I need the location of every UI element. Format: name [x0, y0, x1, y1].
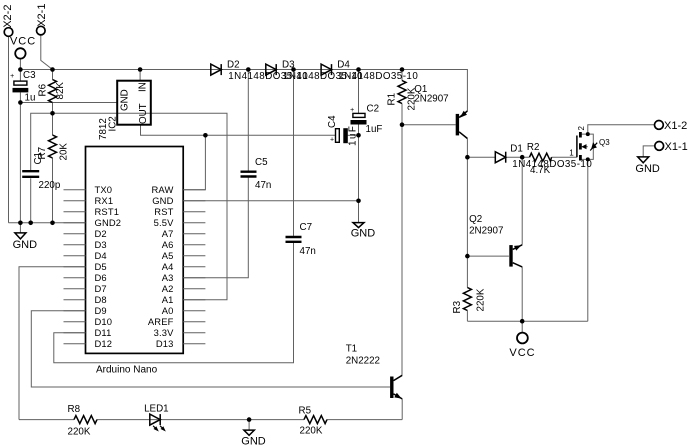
svg-text:AREF: AREF — [148, 316, 174, 327]
wire D1 cathode to R2 — [506, 156, 529, 158]
svg-text:A7: A7 — [162, 228, 174, 239]
capacitor C4 plates — [336, 128, 348, 143]
connector X2-2 — [4, 28, 13, 37]
svg-text:2N2222: 2N2222 — [346, 356, 380, 367]
connector X2-1 — [37, 26, 46, 35]
svg-text:4.7K: 4.7K — [530, 165, 551, 176]
svg-text:C5: C5 — [255, 157, 268, 168]
svg-text:GND: GND — [241, 435, 265, 446]
svg-text:GND: GND — [152, 195, 173, 206]
wire C7 top from bus — [293, 70, 295, 236]
svg-text:220K: 220K — [475, 288, 486, 311]
connector X1-1 — [655, 142, 664, 151]
ground symbol right — [638, 157, 649, 163]
svg-text:C2: C2 — [367, 103, 380, 114]
svg-text:220p: 220p — [39, 180, 61, 191]
diode D1 — [495, 152, 505, 163]
wire X1-1 to GND — [643, 146, 655, 157]
wire divider tap to A1 pin — [31, 113, 227, 299]
wire GND symbol stub left — [19, 223, 21, 233]
wire Q1 collector to D1 node — [466, 139, 468, 158]
diode D2 — [211, 64, 221, 75]
resistor R3 — [463, 288, 471, 311]
transistor Q1 2N2907 — [456, 111, 468, 139]
svg-text:R5: R5 — [299, 405, 312, 416]
svg-text:1uF: 1uF — [347, 125, 358, 146]
svg-text:D1: D1 — [510, 144, 523, 155]
mosfet Q3 — [577, 132, 597, 161]
svg-text:IC2: IC2 — [107, 116, 118, 131]
wire C4 to C2 node — [348, 134, 359, 136]
IC2 7812 box — [117, 81, 151, 125]
svg-text:D10: D10 — [95, 316, 113, 327]
resistor R6 — [49, 80, 57, 103]
svg-text:20K: 20K — [58, 143, 69, 161]
wire GND rail to GND2 pin — [9, 222, 86, 224]
svg-text:X1-2: X1-2 — [664, 120, 687, 132]
IC1 right pin stubs — [183, 190, 205, 344]
svg-text:+: + — [350, 107, 354, 114]
svg-text:5.5V: 5.5V — [154, 217, 174, 228]
svg-text:+: + — [10, 73, 14, 80]
svg-text:220K: 220K — [300, 426, 323, 437]
svg-text:R1: R1 — [386, 93, 397, 106]
wire X2-2 to GND rail — [8, 36, 10, 223]
svg-text:D2: D2 — [227, 59, 240, 70]
wire T1 emitter to rail — [401, 399, 403, 420]
wire Q3 source to VCC rail — [580, 159, 587, 321]
svg-text:R8: R8 — [68, 404, 81, 415]
diode D3 — [266, 64, 276, 75]
svg-text:C4: C4 — [327, 115, 338, 128]
svg-text:2N2907: 2N2907 — [469, 225, 503, 236]
wire VCC symbol stub bottom — [521, 321, 523, 332]
resistor R5 — [304, 416, 327, 424]
resistor R2 — [530, 153, 552, 161]
wire D9 pin to T1 base — [31, 311, 390, 387]
IC1 left pin stubs — [64, 190, 86, 344]
svg-text:1N4148DO35-10: 1N4148DO35-10 — [338, 71, 418, 82]
resistor R7 — [49, 135, 57, 158]
svg-text:D12: D12 — [95, 338, 113, 349]
diode D4 — [321, 64, 331, 75]
wire R2 to Q3 gate — [552, 156, 577, 158]
svg-text:2: 2 — [577, 126, 586, 131]
transistor Q2 2N2907 — [509, 245, 522, 267]
svg-text:OUT: OUT — [138, 103, 149, 124]
wire Q2 base tap — [467, 255, 509, 257]
svg-text:GND: GND — [635, 163, 660, 175]
svg-text:RST1: RST1 — [95, 206, 120, 217]
svg-text:GND: GND — [13, 239, 37, 251]
svg-text:GND: GND — [351, 228, 376, 240]
wire bottom rail left — [19, 419, 74, 421]
svg-text:1: 1 — [569, 148, 574, 157]
svg-text:R3: R3 — [452, 300, 463, 313]
IC1 Arduino Nano box — [86, 147, 184, 354]
LED1 — [150, 414, 166, 431]
svg-text:TX0: TX0 — [95, 184, 113, 195]
wire R1 bottom to T1 collector — [401, 104, 403, 376]
wire Q3 substrate lead — [582, 146, 588, 148]
svg-text:GND: GND — [119, 89, 130, 111]
wire GND bottom stub — [248, 420, 250, 431]
svg-text:1u: 1u — [25, 93, 36, 104]
svg-text:C3: C3 — [23, 70, 36, 81]
resistor R8 — [74, 416, 97, 424]
svg-text:LED1: LED1 — [144, 403, 169, 414]
wire VCC top bus — [20, 70, 467, 112]
svg-text:X2-1: X2-1 — [36, 4, 48, 27]
svg-text:D3: D3 — [95, 239, 107, 250]
svg-text:D2: D2 — [95, 228, 107, 239]
svg-text:3.3V: 3.3V — [154, 327, 174, 338]
wire D5 pin to bottom rail — [19, 267, 86, 420]
wire C1 bottom to GND rail — [30, 178, 32, 223]
svg-text:A0: A0 — [162, 305, 174, 316]
wire IC2 GND pin to C3 node — [20, 102, 117, 104]
svg-text:A3: A3 — [162, 272, 174, 283]
svg-text:D4: D4 — [337, 59, 350, 70]
wire R6 to R7 link — [52, 103, 54, 136]
svg-text:+: + — [330, 136, 334, 143]
wire C3 bottom to GND rail — [19, 92, 21, 222]
VCC symbol bottom — [517, 333, 528, 344]
capacitor C5 plates — [241, 172, 257, 177]
ground symbol left — [15, 233, 26, 239]
svg-text:D4: D4 — [95, 250, 107, 261]
capacitor C7 plates — [286, 237, 302, 242]
svg-text:D13: D13 — [156, 338, 174, 349]
svg-text:VCC: VCC — [10, 35, 36, 47]
connector X1-2 — [655, 121, 664, 130]
svg-text:47n: 47n — [255, 180, 271, 191]
capacitor C3 plates — [13, 81, 29, 92]
wire C3 top lead — [19, 70, 21, 81]
wire bottom rail right — [327, 419, 402, 421]
ground symbol middle — [353, 223, 364, 228]
svg-text:GND2: GND2 — [95, 217, 122, 228]
wire GND middle drop — [358, 135, 360, 222]
capacitor C1 plates — [22, 171, 39, 177]
wire C5 bottom to A3 pin — [183, 177, 248, 277]
svg-text:47n: 47n — [300, 246, 316, 257]
svg-text:X1-1: X1-1 — [665, 141, 688, 153]
svg-text:D9: D9 — [95, 305, 107, 316]
capacitor C2 plates — [351, 113, 367, 124]
svg-text:Q3: Q3 — [599, 138, 610, 147]
svg-text:D5: D5 — [95, 261, 107, 272]
wire C2 bottom lead — [358, 124, 360, 136]
svg-text:R6: R6 — [37, 83, 48, 96]
transistor T1 2N2222 — [390, 375, 402, 399]
wire IC2 IN stub — [139, 70, 141, 81]
svg-text:A6: A6 — [162, 239, 174, 250]
wire R7 bottom to GND rail — [52, 158, 54, 223]
resistor R1 — [398, 81, 406, 104]
wire R6 top lead — [52, 70, 54, 80]
svg-text:D11: D11 — [95, 327, 112, 338]
svg-text:RST: RST — [154, 206, 173, 217]
wire Q1 base — [402, 124, 456, 126]
wire GND pin row — [183, 200, 358, 202]
svg-text:D6: D6 — [95, 272, 107, 283]
svg-text:Arduino Nano: Arduino Nano — [96, 365, 158, 376]
svg-text:A2: A2 — [162, 283, 174, 294]
svg-text:D7: D7 — [95, 283, 107, 294]
svg-text:D3: D3 — [282, 59, 295, 70]
svg-text:1uF: 1uF — [366, 124, 383, 135]
svg-text:VCC: VCC — [509, 347, 535, 359]
wire Q2 collector to VCC rail — [521, 267, 523, 321]
svg-text:R2: R2 — [527, 142, 540, 153]
wire Q3 body diode loop — [588, 134, 594, 159]
wire Q1-Q2-R3 vertical — [466, 157, 468, 287]
wire IC2 OUT to C4 — [141, 125, 336, 136]
svg-text:RX1: RX1 — [95, 195, 114, 206]
svg-text:Q2: Q2 — [469, 214, 482, 225]
VCC symbol top — [15, 48, 25, 58]
wire C2 top lead — [358, 70, 360, 114]
svg-text:A1: A1 — [162, 294, 174, 305]
svg-text:A5: A5 — [162, 250, 174, 261]
ground symbol bottom — [244, 430, 254, 435]
svg-text:D8: D8 — [95, 294, 107, 305]
wire D1 node to Q2 emitter — [521, 157, 523, 245]
wire bottom rail mid — [97, 419, 304, 421]
svg-text:2N2907: 2N2907 — [414, 93, 448, 104]
svg-text:T1: T1 — [346, 344, 357, 355]
svg-text:1N4148DO35-10: 1N4148DO35-10 — [512, 159, 592, 170]
wire VCC symbol stub — [19, 58, 21, 69]
wire D1 anode lead — [467, 156, 495, 158]
svg-text:IN: IN — [137, 82, 148, 92]
wire C5 top from bus — [247, 70, 249, 171]
svg-text:220K: 220K — [68, 427, 91, 438]
wire C7 bottom to D11 pin — [54, 243, 294, 363]
wire bottom VCC rail — [467, 320, 587, 322]
svg-text:A4: A4 — [162, 261, 174, 272]
wire R1 top lead — [401, 70, 403, 81]
svg-text:C1: C1 — [33, 152, 44, 165]
wire OUT node to RAW pin — [183, 135, 205, 190]
wire Q3 drain to X1-2 — [580, 125, 654, 134]
svg-text:RAW: RAW — [152, 184, 174, 195]
svg-text:X2-2: X2-2 — [2, 5, 14, 28]
svg-text:82K: 82K — [55, 82, 66, 100]
wire R3 bottom lead — [466, 311, 468, 322]
wire X2-1 to bus — [41, 35, 53, 70]
svg-text:C7: C7 — [300, 222, 313, 233]
